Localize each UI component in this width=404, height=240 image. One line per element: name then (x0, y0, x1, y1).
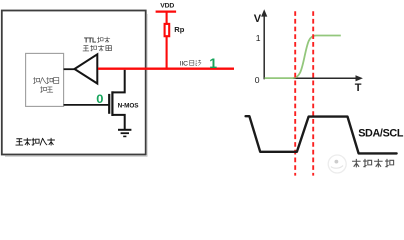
wire: control block to N-MOS gate (64, 104, 110, 106)
T axis (time) with arrow (264, 75, 363, 81)
svg-text:0: 0 (96, 94, 103, 106)
watermark logo circle (328, 155, 346, 173)
I/O control block (输入输出控制) (26, 53, 64, 106)
label: 主机或从机 (master or slave) (16, 138, 55, 146)
svg-text:1: 1 (256, 33, 261, 43)
label: 输入输出 / 控制 (33, 77, 59, 92)
svg-text:TTL: TTL (84, 38, 97, 45)
ground symbol (118, 130, 131, 137)
wire: N-MOS source to ground (113, 115, 125, 129)
green rising-edge curve (slow rise 0 to 1) (265, 36, 341, 79)
svg-text:T: T (355, 82, 362, 94)
threshold dashed line 1 (red, left) (294, 11, 296, 175)
svg-text:VDD: VDD (160, 3, 174, 10)
net: IIC bus (red) (98, 67, 234, 69)
label: TTL肖特 / 基触发器 (83, 37, 112, 52)
V axis (voltage) with arrow (261, 9, 267, 79)
wire: bus to N-MOS drain (113, 70, 125, 93)
resistor Rp (red rectangle) (165, 24, 170, 36)
svg-text:V: V (254, 13, 262, 25)
buffer U1: TTL Schmitt trigger triangle (75, 54, 98, 83)
wire: control block output to buffer (64, 68, 76, 70)
transistor Q1: N-MOS gate bar (108, 94, 110, 114)
power VDD rail bar (red) (156, 10, 177, 12)
svg-text:N-MOS: N-MOS (118, 103, 140, 110)
svg-text:Rp: Rp (174, 25, 184, 34)
svg-text:SDA/SCL: SDA/SCL (358, 127, 404, 139)
watermark text 梦源科技 (352, 159, 394, 168)
SDA/SCL trapezoidal waveform (246, 116, 397, 153)
transistor Q1: N-MOS channel bar (111, 91, 113, 116)
threshold dashed line 2 (red, right) (312, 11, 314, 175)
svg-text:IIC: IIC (180, 60, 188, 67)
enclosure box: master/slave device (主机或从机) (2, 11, 148, 157)
svg-text:1: 1 (209, 55, 217, 71)
svg-text:0: 0 (255, 75, 260, 85)
wire: Rp to IIC bus (red) (166, 36, 168, 70)
wire: VDD to Rp (red) (166, 12, 168, 24)
label: IIC总线 (180, 60, 201, 67)
